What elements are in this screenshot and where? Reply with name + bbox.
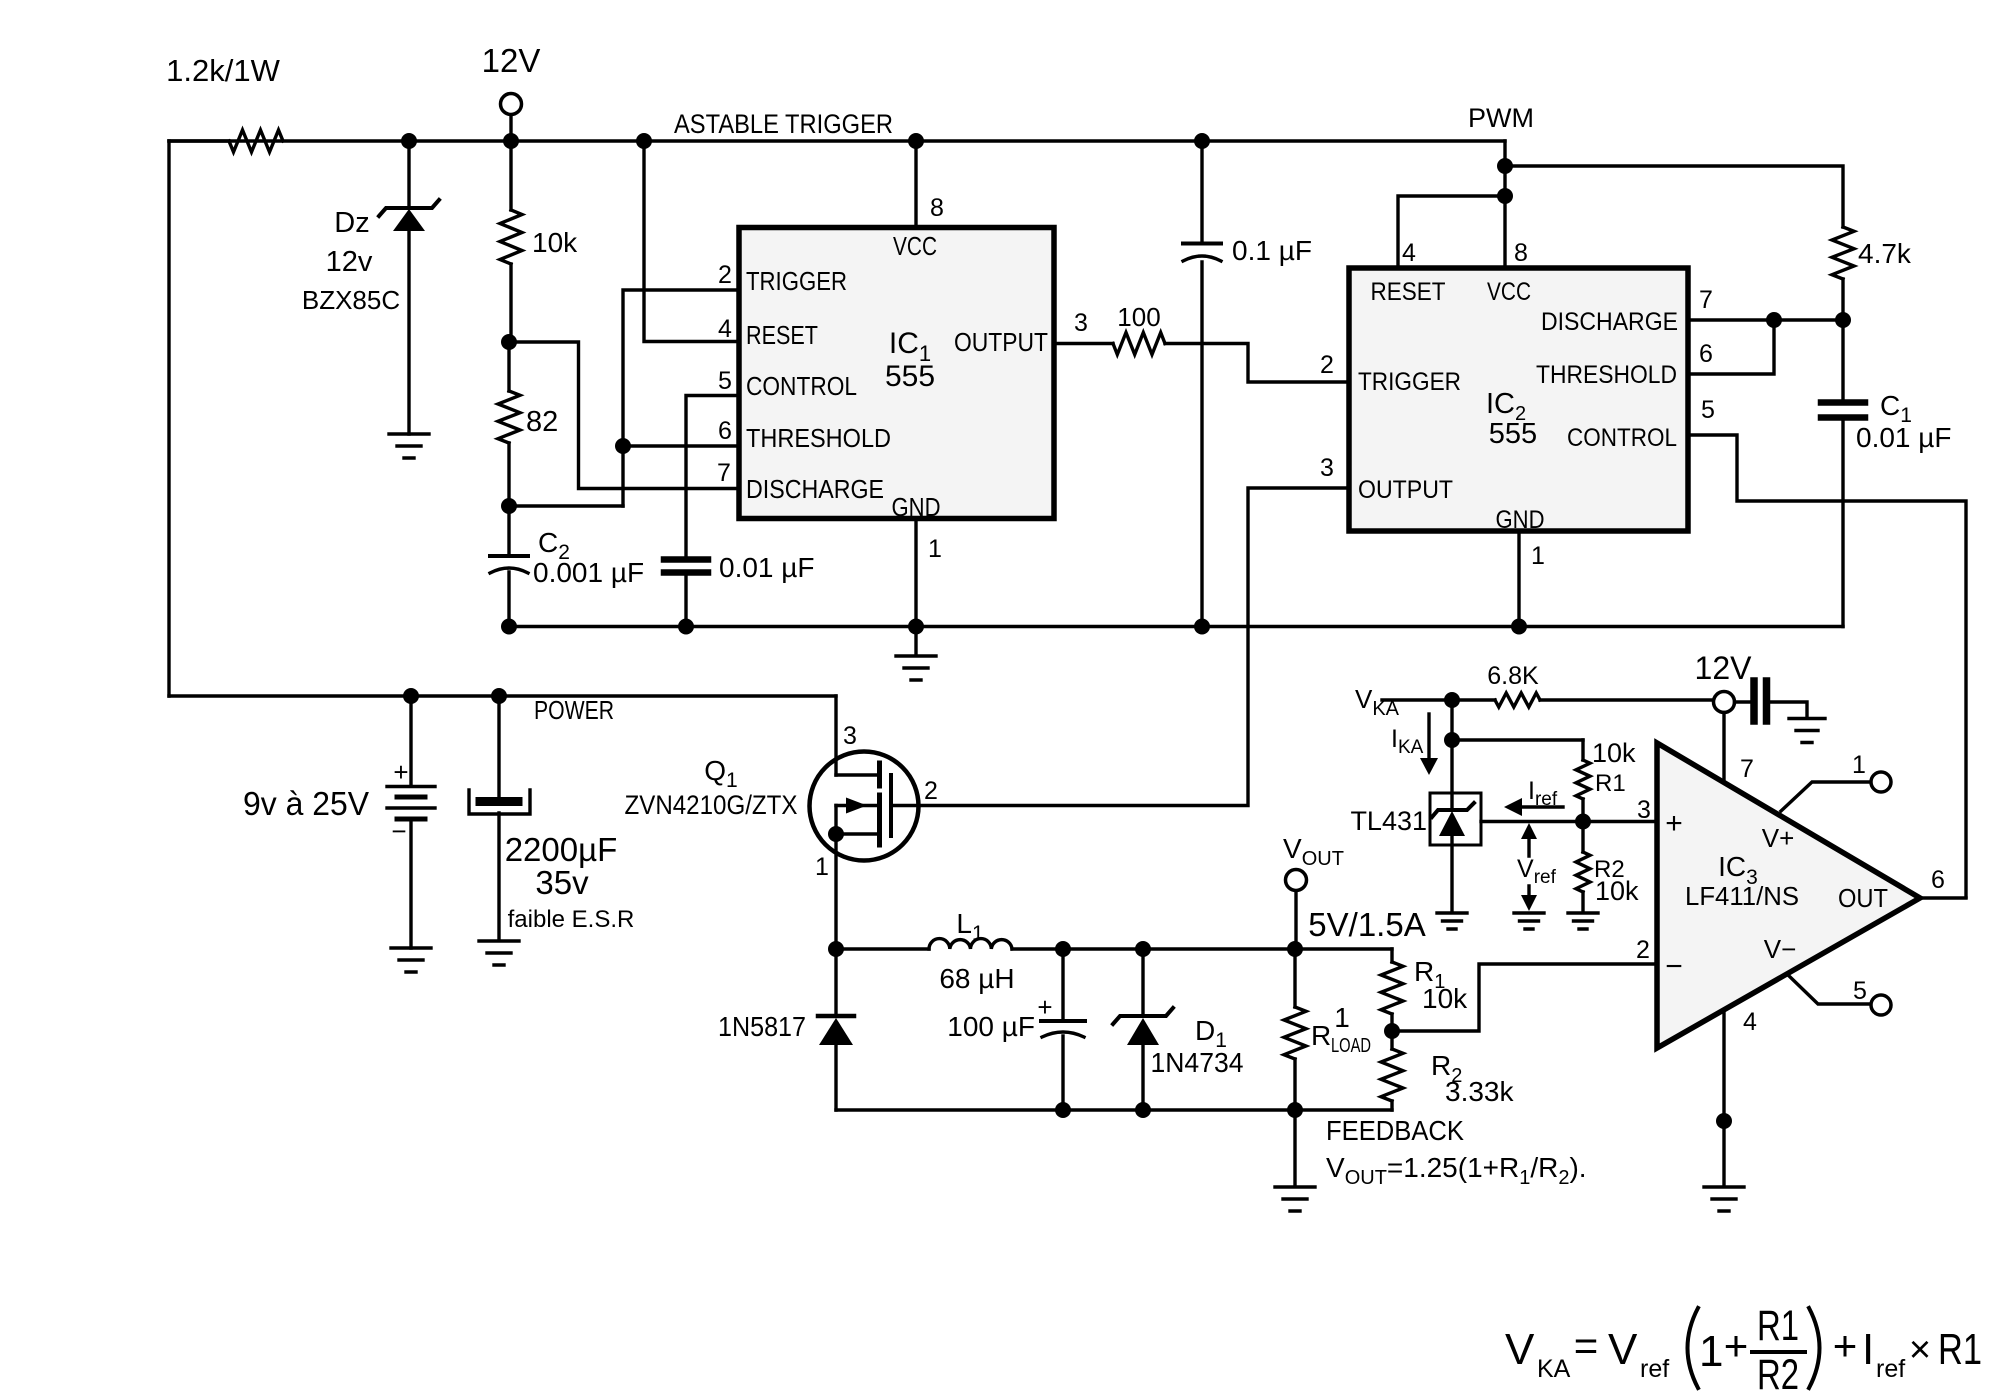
ground (Vref) xyxy=(1514,913,1544,929)
ground (op-amp) xyxy=(1704,1187,1744,1211)
wire left rail down to POWER bus xyxy=(167,141,170,696)
svg-text:PWM: PWM xyxy=(1468,103,1534,133)
svg-text:100 µF: 100 µF xyxy=(947,1011,1035,1042)
wire 12V to op-amp pin 7 xyxy=(1722,713,1725,781)
ground (TL431) xyxy=(1437,913,1467,929)
svg-text:+: + xyxy=(1724,1322,1749,1369)
svg-text:7: 7 xyxy=(1699,286,1713,314)
wire TL431 ref to op-amp pin 3 xyxy=(1481,820,1657,823)
svg-text:×: × xyxy=(1909,1329,1931,1371)
resistor 4.7k xyxy=(1832,227,1912,320)
wire output rail xyxy=(1012,947,1392,950)
pin 1 label IC1 + GND wire xyxy=(916,519,942,655)
resistor 82 xyxy=(498,342,558,506)
node junction D1 top xyxy=(1135,941,1151,957)
node junction 10k/82 xyxy=(501,334,517,350)
svg-text:1N5817: 1N5817 xyxy=(718,1011,806,1042)
svg-text:82: 82 xyxy=(526,406,558,438)
capacitor C1 0.01 uF xyxy=(1821,320,1952,627)
wire threshold pin 6 of IC1 xyxy=(623,444,739,447)
node junction 82/C2 xyxy=(501,498,517,514)
svg-text:555: 555 xyxy=(885,360,935,393)
ground (IC1 pin1) xyxy=(896,656,936,680)
node junction 12V/top rail xyxy=(503,133,519,149)
current arrow IKA xyxy=(1391,714,1438,775)
svg-text:4: 4 xyxy=(718,315,732,343)
svg-text:V−: V− xyxy=(1764,934,1797,964)
svg-text:10k: 10k xyxy=(1592,738,1636,768)
svg-text:7: 7 xyxy=(717,459,731,487)
svg-text:V+: V+ xyxy=(1762,823,1795,853)
svg-text:R1: R1 xyxy=(1938,1325,1982,1374)
svg-text:0.01 µF: 0.01 µF xyxy=(1856,422,1952,453)
wire VKA line xyxy=(1382,698,1714,701)
svg-text:+: + xyxy=(393,757,408,787)
ground (output) xyxy=(1275,1187,1315,1211)
node junction VKA/TL431 xyxy=(1444,692,1460,708)
wire IC2 output pin 3 to MOSFET gate xyxy=(891,488,1349,806)
svg-text:R: R xyxy=(1311,1020,1331,1051)
svg-text:4: 4 xyxy=(1402,239,1416,267)
diode 1N5817 xyxy=(718,949,854,1110)
wire junction to trigger/threshold vertical xyxy=(509,504,623,507)
node formula VKA xyxy=(1505,1302,1982,1393)
svg-text:OUTPUT: OUTPUT xyxy=(1358,476,1453,504)
svg-text:1: 1 xyxy=(1531,542,1545,570)
svg-text:V: V xyxy=(1505,1325,1535,1374)
capacitor 0.1 uF xyxy=(1183,141,1312,627)
wire feedback ground stub xyxy=(1293,1110,1296,1186)
svg-text:V: V xyxy=(1608,1325,1638,1374)
capacitor 2200uF 35v xyxy=(469,696,634,940)
svg-text:KA: KA xyxy=(1537,1355,1571,1383)
svg-text:1: 1 xyxy=(1699,1327,1723,1376)
svg-text:CONTROL: CONTROL xyxy=(1567,424,1677,452)
svg-text:3: 3 xyxy=(1320,454,1334,482)
wire reset pin 4 of IC1 xyxy=(644,141,739,342)
wire 100R to IC2 trigger pin 2 xyxy=(1165,344,1349,383)
resistor R1 10k (feedback) xyxy=(1381,949,1468,1031)
svg-text:8: 8 xyxy=(930,194,944,222)
svg-text:68 µH: 68 µH xyxy=(939,963,1014,994)
node junction R1/R2 TL431 xyxy=(1575,814,1591,830)
svg-text:1: 1 xyxy=(928,535,942,563)
svg-text:LOAD: LOAD xyxy=(1331,1035,1371,1057)
svg-text:CONTROL: CONTROL xyxy=(746,371,857,401)
svg-text:6.8K: 6.8K xyxy=(1487,662,1539,690)
svg-text:12v: 12v xyxy=(326,246,373,278)
node junction bottom D1 xyxy=(1135,1102,1151,1118)
svg-text:−: − xyxy=(391,816,406,846)
ground (zener Dz) xyxy=(389,434,429,458)
pin 8 label IC1 + VCC wire xyxy=(916,141,944,228)
svg-text:4.7k: 4.7k xyxy=(1858,238,1912,269)
svg-text:THRESHOLD: THRESHOLD xyxy=(1536,361,1677,389)
svg-text:6: 6 xyxy=(1699,340,1713,368)
wire ground bus xyxy=(509,625,1843,628)
svg-text:10k: 10k xyxy=(1595,876,1639,906)
svg-text:ref: ref xyxy=(1876,1355,1905,1383)
wire junction to R1 top xyxy=(1452,738,1583,741)
svg-text:THRESHOLD: THRESHOLD xyxy=(746,423,891,453)
wire VKA junction down xyxy=(1450,700,1453,740)
node junction TL431/R1 xyxy=(1444,732,1460,748)
wire IC1 output pin 3 xyxy=(1054,342,1113,345)
wire POWER bus xyxy=(169,694,836,697)
pin 1 offset null IC3 xyxy=(1781,751,1891,811)
svg-text:3: 3 xyxy=(843,722,857,750)
node junction bottom 100uF xyxy=(1055,1102,1071,1118)
node junction VCC1/top rail xyxy=(908,133,924,149)
svg-text:2: 2 xyxy=(1320,351,1334,379)
svg-text:2: 2 xyxy=(718,261,732,289)
current arrow Iref xyxy=(1504,777,1563,816)
node junction discharge/threshold xyxy=(1766,312,1782,328)
svg-text:I: I xyxy=(1862,1325,1874,1374)
capacitor C2 0.001 uF xyxy=(490,506,644,627)
resistor R2 10k (TL431) xyxy=(1576,822,1639,913)
svg-text:VCC: VCC xyxy=(893,231,937,261)
zener diode Dz 12v BZX85C xyxy=(302,141,439,434)
svg-text:100: 100 xyxy=(1117,302,1160,332)
svg-text:ref: ref xyxy=(1640,1355,1669,1383)
svg-text:POWER: POWER xyxy=(534,695,614,725)
wire IC2 GND pin 1 xyxy=(1517,531,1520,627)
wire branch to IC2 reset pin 4 xyxy=(1398,196,1505,268)
svg-text:LF411/NS: LF411/NS xyxy=(1685,881,1799,911)
svg-text:R2: R2 xyxy=(1757,1351,1799,1393)
svg-text:1: 1 xyxy=(1852,751,1866,779)
resistor 10k (divider top) xyxy=(500,141,578,342)
svg-text:5V/1.5A: 5V/1.5A xyxy=(1308,906,1425,943)
node junction PWM/reset2 xyxy=(1497,188,1513,204)
wire feedback tap to op-amp pin 2 xyxy=(1392,964,1657,1031)
pin 6 output IC3 xyxy=(1920,866,1966,898)
svg-text:0.1 µF: 0.1 µF xyxy=(1232,235,1312,266)
ground (2200uF) xyxy=(479,941,519,965)
svg-text:FEEDBACK: FEEDBACK xyxy=(1326,1115,1464,1146)
node junction RLOAD top xyxy=(1287,941,1303,957)
battery 9v a 25V xyxy=(243,696,435,948)
svg-text:6: 6 xyxy=(718,417,732,445)
svg-text:ZVN4210G/ZTX: ZVN4210G/ZTX xyxy=(625,790,798,820)
wire IC2 control pin 5 to op-amp output xyxy=(1688,435,1966,897)
wire IC2 threshold pin 6 xyxy=(1688,320,1774,374)
node junction bus 0.1uF xyxy=(1194,619,1210,635)
resistor 100 xyxy=(1113,302,1165,355)
node junction PWM/4.7k xyxy=(1497,158,1513,174)
resistor RLOAD xyxy=(1284,949,1371,1110)
svg-text:35v: 35v xyxy=(535,864,589,901)
svg-text:1: 1 xyxy=(1334,1002,1350,1033)
node junction bus C2 xyxy=(501,619,517,635)
svg-text:5: 5 xyxy=(1701,396,1715,424)
ground (R2) xyxy=(1568,913,1598,929)
svg-text:2: 2 xyxy=(924,777,938,805)
svg-text:1N4734: 1N4734 xyxy=(1151,1047,1244,1078)
svg-text:2200µF: 2200µF xyxy=(505,831,618,868)
op IC2 555 timer box xyxy=(1349,268,1688,534)
svg-text:BZX85C: BZX85C xyxy=(302,285,400,315)
wire branch to 4.7k xyxy=(1505,166,1843,227)
svg-text:4: 4 xyxy=(1743,1008,1757,1036)
capacitor 12V decoupling xyxy=(1735,681,1808,721)
wire trigger pin 2 of IC1 xyxy=(623,290,739,506)
svg-text:OUTPUT: OUTPUT xyxy=(954,327,1048,357)
svg-text:3.33k: 3.33k xyxy=(1445,1076,1514,1107)
wire junction to discharge pin 7 of IC1 xyxy=(509,342,739,489)
svg-text:TRIGGER: TRIGGER xyxy=(746,266,847,296)
node junction bottom RLOAD xyxy=(1287,1102,1303,1118)
wire PWM corner down to IC2 VCC pin 8 xyxy=(1503,141,1506,268)
voltage arrow Vref xyxy=(1517,823,1557,911)
svg-text:1: 1 xyxy=(815,853,829,881)
node source junction xyxy=(828,941,844,957)
svg-text:555: 555 xyxy=(1489,418,1537,450)
node junction 0.1uF/top rail xyxy=(1194,133,1210,149)
transistor Q1 ZVN4210G/ZTX xyxy=(625,752,919,950)
svg-text:R1: R1 xyxy=(1757,1302,1799,1350)
ground (12V decoupling) xyxy=(1789,719,1825,743)
op-amp IC3 LF411/NS xyxy=(1657,743,1920,1048)
svg-text:10k: 10k xyxy=(532,227,578,258)
zener diode D1 1N4734 xyxy=(1113,949,1244,1110)
svg-text:RESET: RESET xyxy=(746,320,818,350)
node junction R1/R2 xyxy=(1384,1023,1400,1039)
node 12V terminal xyxy=(482,42,541,141)
node junction 100uF top xyxy=(1055,941,1071,957)
svg-text:Dz: Dz xyxy=(334,207,369,239)
capacitor 0.01 uF (control IC1) xyxy=(664,552,815,627)
svg-text:ASTABLE TRIGGER: ASTABLE TRIGGER xyxy=(674,109,893,139)
shunt regulator TL431 xyxy=(1350,740,1481,912)
node junction Dz/top rail xyxy=(401,133,417,149)
node VOUT terminal xyxy=(1283,833,1344,949)
svg-text:0.01 µF: 0.01 µF xyxy=(719,552,815,583)
svg-text:RESET: RESET xyxy=(1371,278,1446,306)
svg-text:TRIGGER: TRIGGER xyxy=(1358,368,1461,396)
svg-text:6: 6 xyxy=(1931,866,1945,894)
svg-text:OUT: OUT xyxy=(1838,883,1888,913)
svg-text:DISCHARGE: DISCHARGE xyxy=(746,474,884,504)
svg-text:3: 3 xyxy=(1074,309,1088,337)
svg-text:8: 8 xyxy=(1514,239,1528,267)
op IC1 555 timer box xyxy=(739,228,1054,523)
svg-text:12V: 12V xyxy=(1695,650,1753,686)
node junction threshold xyxy=(615,438,631,454)
svg-text:+: + xyxy=(1665,807,1683,840)
svg-text:7: 7 xyxy=(1740,755,1754,783)
resistor R2 3.33k (feedback) xyxy=(1381,1031,1514,1110)
resistor R1 10k (TL431) xyxy=(1576,738,1636,821)
node junction bus 0.01uF xyxy=(678,619,694,635)
wire op-amp pin 4 xyxy=(1722,1011,1725,1186)
svg-text:+: + xyxy=(1037,992,1052,1022)
svg-text:faible E.S.R: faible E.S.R xyxy=(508,906,635,933)
svg-text:+: + xyxy=(1833,1322,1858,1369)
wire POWER to drain xyxy=(834,696,837,775)
wire output bottom rail xyxy=(836,1108,1392,1111)
capacitor 100 uF xyxy=(947,949,1085,1110)
svg-text:3: 3 xyxy=(1637,796,1651,824)
node junction bus IC2 gnd xyxy=(1511,619,1527,635)
svg-text:VCC: VCC xyxy=(1487,278,1531,306)
svg-text:1.2k/1W: 1.2k/1W xyxy=(166,53,280,88)
pin 5 offset null IC3 xyxy=(1788,975,1891,1015)
node junction reset/top rail xyxy=(636,133,652,149)
wire control pin 5 of IC1 xyxy=(686,396,739,557)
svg-text:TL431: TL431 xyxy=(1350,806,1427,836)
resistor 1.2k/1W xyxy=(166,53,283,152)
node 12V aux terminal xyxy=(1695,650,1753,713)
node junction pin 4 xyxy=(1716,1113,1732,1129)
svg-text:5: 5 xyxy=(718,367,732,395)
wire IC2 discharge pin 7 xyxy=(1688,318,1843,321)
svg-text:9v à 25V: 9v à 25V xyxy=(243,785,369,822)
svg-text:R1: R1 xyxy=(1595,770,1626,797)
svg-text:2: 2 xyxy=(1636,936,1650,964)
node junction 2200uF tap xyxy=(491,688,507,704)
svg-text:−: − xyxy=(1665,950,1683,983)
inductor L1 68 uH xyxy=(836,908,1015,994)
node junction bus IC1 gnd xyxy=(908,619,924,635)
svg-text:10k: 10k xyxy=(1422,983,1468,1014)
svg-text:12V: 12V xyxy=(482,42,541,79)
svg-text:DISCHARGE: DISCHARGE xyxy=(1541,308,1678,336)
wire top 12V rail xyxy=(169,139,1505,142)
svg-text:0.001 µF: 0.001 µF xyxy=(533,557,644,588)
node junction discharge/4.7k/C1 xyxy=(1835,312,1851,328)
resistor 6.8K xyxy=(1487,662,1540,707)
ground (battery) xyxy=(391,948,431,972)
svg-text:=: = xyxy=(1574,1322,1599,1369)
svg-text:5: 5 xyxy=(1853,977,1867,1005)
